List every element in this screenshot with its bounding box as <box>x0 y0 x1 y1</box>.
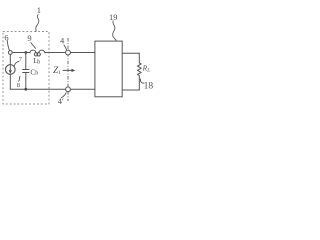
svg-text:1: 1 <box>58 70 61 76</box>
wire from coil to amp box <box>45 52 95 54</box>
leader for 4 <box>64 45 67 50</box>
svg-text:7: 7 <box>19 56 23 63</box>
wire top inside box <box>12 52 29 54</box>
svg-text:L: L <box>146 67 150 73</box>
leader for 19 <box>113 21 117 41</box>
lead below current source <box>9 74 11 89</box>
capacitor Cb lead top <box>25 53 27 70</box>
dashed box 1 (bias circuit) <box>3 32 49 105</box>
leader for 6 <box>7 41 9 50</box>
leader for 8 <box>19 76 20 81</box>
leader for 1 <box>36 15 39 32</box>
port boundary chain line <box>67 38 69 101</box>
leader for 7 <box>14 61 19 66</box>
leader for 18 <box>140 79 144 83</box>
svg-text:1: 1 <box>37 5 41 15</box>
leader for 9 <box>31 43 36 49</box>
svg-text:b: b <box>37 59 40 65</box>
svg-text:8: 8 <box>17 82 20 89</box>
junction node <box>24 51 27 54</box>
wire box to load bottom <box>122 89 139 91</box>
junction node bottom <box>24 88 27 91</box>
svg-text:9: 9 <box>27 33 31 43</box>
inductor Lb coil <box>30 50 36 53</box>
svg-text:6: 6 <box>4 33 8 43</box>
svg-text:b: b <box>35 71 38 77</box>
impedance arrow <box>63 69 72 71</box>
capacitor plates <box>23 69 29 71</box>
terminal node 6 <box>8 51 12 55</box>
lead below resistor <box>138 78 140 90</box>
leader for 4' <box>61 93 66 98</box>
current source circle <box>6 65 16 75</box>
port node 4 <box>66 50 71 55</box>
current source arrow <box>9 66 11 71</box>
vertical lead to current source <box>9 55 11 65</box>
svg-text:18: 18 <box>144 81 154 91</box>
amplifier box 19 <box>95 41 122 97</box>
wire box to load top <box>122 52 139 54</box>
lead to resistor <box>138 53 140 63</box>
bottom wire <box>10 88 95 90</box>
port node 4' <box>66 87 71 92</box>
svg-text:4: 4 <box>60 35 65 45</box>
resistor RL zigzag <box>137 63 141 78</box>
capacitor lead bottom <box>25 73 27 90</box>
